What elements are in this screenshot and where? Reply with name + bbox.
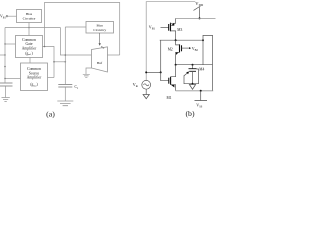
ground buffer — [83, 74, 90, 77]
wire output down link — [160, 40, 162, 72]
output node wire — [160, 39, 203, 41]
transistor M4 — [192, 65, 194, 69]
svg-text:Bias: Bias — [97, 24, 104, 28]
transistor M3 — [168, 24, 170, 31]
top rail VDD — [176, 17, 216, 19]
junction connector right — [65, 61, 67, 63]
wire feedback top loop — [45, 3, 120, 56]
buffer trapezoid — [92, 47, 108, 72]
wire VB to bias box — [8, 15, 17, 17]
wire left vertical rail — [4, 28, 6, 84]
svg-text:Amplifier: Amplifier — [22, 46, 37, 50]
ground left — [2, 98, 10, 102]
wire link down to gate level — [161, 72, 169, 80]
junction left-CS — [4, 78, 5, 79]
svg-text:M3: M3 — [177, 28, 182, 32]
transistor M1 — [168, 78, 170, 84]
wire cap to ground — [5, 86, 7, 98]
M4 gate loop — [184, 69, 199, 84]
transistor M2 — [181, 45, 183, 51]
junction M4 drain — [192, 64, 194, 66]
wire M2 gate — [182, 47, 189, 49]
svg-text:(b): (b) — [185, 109, 194, 118]
common gate amplifier box — [16, 36, 43, 58]
junction VSS stem — [200, 90, 202, 92]
bottom rail VSS — [176, 90, 214, 92]
junction link-gate — [160, 71, 162, 73]
junction feedback-CG output — [44, 46, 46, 48]
bias circuitry box B4 — [86, 22, 114, 34]
junction buffer input-C1 — [65, 54, 67, 56]
wire top VDD branch — [146, 2, 195, 81]
bias circuitry box B1 — [17, 10, 42, 23]
wire bus corner down to buffer input — [60, 28, 91, 56]
wire horizontal bus — [5, 27, 60, 29]
junction left edge wire — [4, 54, 5, 55]
junction mid node — [175, 64, 177, 66]
VSS terminal — [200, 91, 202, 101]
M4 ground arrow — [189, 85, 195, 90]
wire VB1 to M3 gate — [161, 27, 169, 29]
common source amplifier box — [21, 63, 48, 91]
Vin ground arrow — [145, 89, 147, 94]
svg-text:Amplifier: Amplifier — [27, 76, 42, 80]
junction output link — [202, 39, 204, 41]
wire node to bias2 input — [65, 26, 86, 28]
ground C1 — [57, 101, 73, 106]
wire x203 down to M4 node — [202, 40, 204, 64]
junction left-CG — [4, 43, 5, 44]
junction M3/M2 drains — [175, 39, 177, 41]
wire CG amp bottom to CS amp top — [29, 58, 31, 64]
wire input from left edge — [0, 54, 5, 56]
wire Vin node to M1 gate link — [146, 71, 161, 73]
svg-text:(a): (a) — [46, 110, 55, 119]
junction connector left — [53, 61, 55, 63]
svg-text:Circuitry: Circuitry — [93, 28, 106, 32]
capacitor C2 left plates — [0, 83, 13, 86]
junction mid left rail — [4, 66, 6, 68]
svg-text:M4: M4 — [199, 67, 204, 71]
wire to CS amp input — [5, 78, 21, 80]
M4 gate stem — [192, 71, 194, 84]
svg-text:M1: M1 — [167, 96, 172, 100]
wire node down to C1 — [64, 27, 66, 85]
svg-text:M2: M2 — [168, 47, 173, 51]
arrow to VB2 — [189, 47, 191, 49]
wire CS output — [48, 77, 55, 79]
wire CG output — [43, 47, 55, 78]
mid node wire M2 source / M4 drain — [176, 64, 213, 66]
svg-text:Circuitry: Circuitry — [23, 17, 36, 21]
Vin source circle — [142, 80, 151, 89]
VDD supply stem with tick — [199, 7, 201, 18]
wire output to right edge link — [203, 35, 213, 90]
junction bus-B1 stem — [28, 27, 30, 29]
junction Vin wire — [145, 71, 147, 73]
arrow IB bias current — [99, 33, 101, 44]
wire buffer to ground — [86, 68, 92, 74]
junction VDD-rail — [199, 17, 201, 19]
wire connector outputs to C1 node — [54, 61, 65, 63]
M4 source arrow — [184, 72, 188, 76]
junction gate loop — [192, 83, 194, 85]
wire to CG amp input — [5, 43, 16, 45]
wire B1 bottom to bus to CG amp top — [28, 23, 30, 36]
capacitor C1 plates — [58, 85, 72, 88]
svg-text:Buf: Buf — [97, 61, 103, 65]
wire C1 to ground — [64, 87, 66, 101]
svg-text:Bias: Bias — [26, 12, 33, 16]
terminal circle VB — [6, 15, 8, 17]
wire buffer output — [107, 54, 119, 56]
